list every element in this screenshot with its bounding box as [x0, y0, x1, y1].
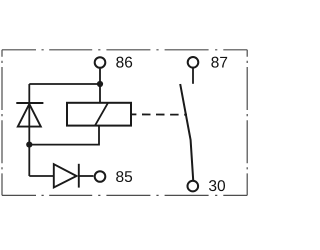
wire: terminal 86 stem down to junction: [99, 69, 101, 84]
diode D1 (freewheel, cathode up): [16, 103, 43, 127]
terminal 87 circle: [188, 57, 199, 68]
terminal 86 circle: [95, 57, 106, 68]
wire: junction to left branch (horizontal): [29, 83, 100, 85]
wire: junction down to coil top: [99, 84, 101, 103]
label 87: [211, 57, 227, 68]
relay coil K1 (rectangle with slash): [67, 103, 136, 126]
wire: left vertical through diode D1: [28, 84, 30, 176]
terminal 85 circle: [95, 171, 106, 182]
label 30: [209, 180, 225, 191]
mechanical linkage (dashed) coil to armature: [136, 113, 187, 115]
enclosure border top (dash-dot): [2, 49, 247, 51]
label 86: [116, 57, 132, 68]
node B junction dot (coil bottom / D1 / 85 branch): [26, 142, 32, 148]
switch armature (normally open): [180, 84, 193, 180]
label 85: [116, 171, 132, 182]
wire: bottom branch to diode D2: [29, 175, 54, 177]
enclosure border right (dash-dot): [246, 50, 248, 196]
wire: terminal 87 stem down to fixed contact: [192, 68, 194, 83]
wire: coil bottom down then left to node B: [29, 126, 99, 145]
enclosure border left (dash-dot): [1, 50, 3, 196]
terminal 30 circle: [188, 181, 199, 192]
diode D2 (series to 85, cathode right): [54, 164, 79, 188]
wire: diode D2 to terminal 85: [79, 175, 94, 177]
node A junction dot (86 / coil / D1): [97, 81, 103, 87]
enclosure border bottom (dash-dot): [2, 194, 247, 196]
